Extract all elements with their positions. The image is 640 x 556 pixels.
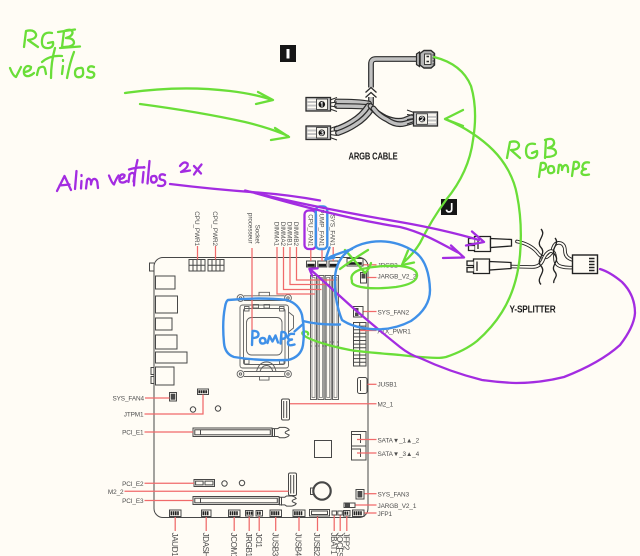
connector JUSB3 xyxy=(270,510,282,517)
svg-text:CPU_PWR1: CPU_PWR1 xyxy=(193,211,200,246)
green arrow to connector 1 xyxy=(125,88,273,104)
dimm slot 3 xyxy=(325,276,331,400)
leader SATA_1_2 xyxy=(357,439,377,441)
leader JUSB2 xyxy=(317,517,319,532)
connector ATX_PWR1 xyxy=(354,323,367,367)
leader JUSB1 xyxy=(368,383,377,385)
leader DIMMA2 xyxy=(284,247,322,290)
svg-text:PCI_E1: PCI_E1 xyxy=(122,430,144,437)
svg-text:Y-SPLITTER: Y-SPLITTER xyxy=(510,305,557,316)
svg-text:JUSB1: JUSB1 xyxy=(378,381,398,388)
blue arrow to PUMP_FAN1 xyxy=(326,248,353,260)
svg-text:JFP2: JFP2 xyxy=(342,533,351,551)
leader DIMMA1 xyxy=(277,247,315,294)
battery xyxy=(311,482,331,499)
svg-text:JDASH1: JDASH1 xyxy=(201,533,210,556)
svg-text:DIMMB1: DIMMB1 xyxy=(286,222,293,247)
purple box around CPU_FAN1 xyxy=(305,211,317,250)
dimm slot 1 xyxy=(311,276,317,400)
svg-text:JUSB4: JUSB4 xyxy=(294,533,303,556)
wire slack squiggle 2 xyxy=(553,238,556,283)
svg-text:Socket: Socket xyxy=(254,225,261,244)
socket processor frame xyxy=(240,305,294,369)
connector JTPM1 xyxy=(198,389,209,395)
socket bracket bottom xyxy=(237,362,291,380)
leader SYS_FAN4 xyxy=(145,397,170,399)
svg-text:PCI_E3: PCI_E3 xyxy=(122,498,144,505)
handwriting Alim ventilos xyxy=(57,160,165,191)
leader PUMP_FAN1 xyxy=(321,249,323,261)
connector M2_1 xyxy=(282,399,290,420)
connector F1 (top fan plug) xyxy=(469,237,512,252)
svg-text:JCI1: JCI1 xyxy=(254,533,263,549)
connector JDASH1 xyxy=(202,510,212,517)
leader PCI_E1 xyxy=(145,431,194,433)
svg-text:JAUD1: JAUD1 xyxy=(170,533,179,556)
svg-text:SYS_FAN3: SYS_FAN3 xyxy=(378,492,410,499)
wire junction to connector 1 (pair) xyxy=(337,102,369,104)
leader JRGB2 xyxy=(364,264,377,266)
connector 2 xyxy=(414,112,438,126)
connector F2 (bottom fan plug) xyxy=(467,259,511,274)
dimm slot 2 xyxy=(318,276,324,400)
connector JFP1 xyxy=(353,510,365,517)
leader JARGB_V2_2 xyxy=(367,277,377,279)
connector T (top) xyxy=(417,51,435,69)
leader JARGB_V2_1 xyxy=(356,504,377,506)
left edge tab xyxy=(150,263,155,271)
leader PCI_E2 xyxy=(145,482,195,484)
leader M2_2 xyxy=(125,490,289,492)
svg-text:JCOM1: JCOM1 xyxy=(229,533,238,556)
board outline xyxy=(154,258,368,518)
connector 1 boot xyxy=(330,98,337,112)
wire F1 to R (wavy) xyxy=(517,242,573,261)
m2 slot M2_2 xyxy=(289,473,297,496)
wire slack squiggle 1 xyxy=(539,229,542,285)
connector JUSB2 xyxy=(310,510,330,517)
svg-text:SATA▼_1▲_2: SATA▼_1▲_2 xyxy=(378,437,420,444)
svg-text:DIMMA2: DIMMA2 xyxy=(279,222,286,247)
wire junction to connector 2 (pair) xyxy=(371,106,413,121)
leader JFP1 xyxy=(365,512,377,514)
step marker 1 xyxy=(280,45,296,62)
leader DIMMB1 xyxy=(290,247,330,285)
wire top connector to junction xyxy=(371,59,417,104)
blue line from pompe to ellipse xyxy=(303,321,340,325)
leader JCOM1 xyxy=(233,517,235,531)
mounting hole C xyxy=(222,481,227,486)
svg-text:PCI_E2: PCI_E2 xyxy=(122,481,144,488)
green arrow at connector 2 with big sweep xyxy=(302,110,520,358)
svg-text:SYS_FAN1: SYS_FAN1 xyxy=(329,214,336,246)
io block 6 xyxy=(156,367,175,385)
leader JUSB3 xyxy=(275,517,277,531)
connector SATA 3-4 xyxy=(352,446,367,460)
svg-text:JARGB_V2_2: JARGB_V2_2 xyxy=(378,274,417,281)
leader M2_1 xyxy=(290,403,377,405)
connector JFP2 xyxy=(344,511,351,517)
pcie slot PCI_E3 xyxy=(193,496,296,506)
leader PCI_E3 xyxy=(145,500,194,502)
chipset xyxy=(315,441,332,458)
dimm slot 4 xyxy=(333,276,339,400)
io block 4 xyxy=(156,335,178,349)
connector CPU_PWR2 xyxy=(208,260,224,272)
connector PUMP_FAN1 xyxy=(318,261,327,267)
connector CPU_FAN1 xyxy=(307,261,316,267)
svg-text:M2_2: M2_2 xyxy=(108,489,124,496)
wire F2 to R (wavy) xyxy=(511,251,573,268)
purple arrow at CPU_FAN1 with long sweep to Y-splitter right xyxy=(309,268,635,383)
svg-text:SYS_FAN2: SYS_FAN2 xyxy=(378,309,410,316)
svg-text:SYS_FAN4: SYS_FAN4 xyxy=(112,396,144,403)
connector JRGB1 xyxy=(246,511,254,517)
leader DIMMB2 xyxy=(297,247,337,280)
connector JOCFS1 xyxy=(338,511,343,515)
svg-text:JTPM1: JTPM1 xyxy=(124,412,144,419)
connector SYS_FAN3 xyxy=(356,490,364,500)
svg-text:JUSB3: JUSB3 xyxy=(270,533,279,556)
connector 2 boot xyxy=(407,110,414,124)
green ellipse around JARGB_V2_2 xyxy=(351,266,417,288)
svg-text:SATA▼_3▲_4: SATA▼_3▲_4 xyxy=(378,451,420,458)
leader JUSB4 xyxy=(298,517,300,531)
handwriting RGB (top left) xyxy=(24,30,80,49)
svg-text:PUMP_FAN1: PUMP_FAN1 xyxy=(318,209,325,247)
leader CPU_FAN1 xyxy=(310,249,312,261)
io block 2 xyxy=(156,296,178,313)
leader SYS_FAN3 xyxy=(365,493,377,495)
green arrow to connector 3 xyxy=(140,104,289,140)
svg-text:JUSB2: JUSB2 xyxy=(312,533,321,556)
svg-text:M2_1: M2_1 xyxy=(378,402,394,409)
leader JAUD1 xyxy=(174,517,176,531)
leader JRGB1 xyxy=(248,517,250,532)
connector JARGB_V2_2 xyxy=(361,273,367,284)
mounting hole A xyxy=(190,407,195,412)
svg-text:processeur: processeur xyxy=(247,213,254,245)
green curve ARGB top to JARGB_V2_2 arrow xyxy=(402,57,475,265)
svg-text:DIMMB2: DIMMB2 xyxy=(292,222,299,247)
leader CPU_PWR1 xyxy=(197,246,199,260)
blue box around PUMP_FAN1 xyxy=(316,207,328,250)
pcie slot PCI_E2 xyxy=(194,480,215,487)
leader JOCFS1 xyxy=(339,516,341,532)
svg-text:JARGB_V2_1: JARGB_V2_1 xyxy=(378,503,417,510)
handwriting Pompe (blue) xyxy=(252,325,303,346)
leader SYS_FAN2 xyxy=(364,311,377,313)
leader ATX_PWR1 xyxy=(360,330,377,332)
io block 3 xyxy=(156,318,173,330)
connector SATA 1-2 xyxy=(352,432,367,447)
connector JARGB_V2_1 xyxy=(344,503,355,508)
leader SYS_FAN1 xyxy=(332,247,334,261)
handwriting RGB pompe xyxy=(507,139,589,177)
connector R (male header) xyxy=(573,255,598,274)
connector SYS_FAN4 xyxy=(170,393,177,402)
svg-text:JRGB1: JRGB1 xyxy=(244,533,253,556)
connector JUSB4 xyxy=(293,510,305,517)
wire break chevrons xyxy=(366,88,377,98)
svg-text:ARGB CABLE: ARGB CABLE xyxy=(349,152,398,163)
connector JUSB1 xyxy=(358,378,368,394)
mounting hole B xyxy=(215,406,220,411)
leader JFP2 xyxy=(346,516,348,531)
svg-text:JFP1: JFP1 xyxy=(378,511,393,518)
mounting hole D xyxy=(239,480,244,485)
pcie slot PCI_E1 xyxy=(193,427,289,437)
connector 3 xyxy=(306,126,331,140)
blue circle around socket (Pompe) xyxy=(223,299,304,361)
io block 1 xyxy=(156,276,176,289)
svg-text:CPU_PWR2: CPU_PWR2 xyxy=(211,211,218,246)
connector CPU_PWR1 xyxy=(189,260,205,272)
connector 1 xyxy=(306,98,331,112)
connector JBAT1 xyxy=(332,511,337,515)
connector SYS_FAN2 xyxy=(354,307,364,318)
green scribble X near JRGB2 xyxy=(340,250,371,273)
leader Socket processeur xyxy=(251,248,253,331)
purple line to Y-splitter arrow A xyxy=(245,191,484,246)
io block 5 xyxy=(156,352,188,363)
connector 3 boot xyxy=(330,126,337,140)
purple line to Y-splitter arrow B xyxy=(255,193,464,258)
handwriting ventilos xyxy=(10,48,94,78)
connector JRGB2 xyxy=(347,259,363,267)
connector JCOM1 xyxy=(229,510,241,517)
svg-text:DIMMA1: DIMMA1 xyxy=(273,222,280,247)
connector JAUD1 xyxy=(170,510,182,517)
step marker J xyxy=(441,199,457,215)
purple underline swoosh xyxy=(170,184,320,201)
svg-text:CPU_FAN1: CPU_FAN1 xyxy=(306,214,313,247)
connector JCI1 xyxy=(256,511,263,517)
leader CPU_PWR2 xyxy=(215,246,217,260)
leader SATA_3_4 xyxy=(357,452,377,454)
connector SYS_FAN1 xyxy=(329,261,338,267)
leader JCI1 xyxy=(258,517,260,532)
wire junction to connector 3 (pair) xyxy=(337,106,369,130)
leader JTPM1 xyxy=(145,395,204,415)
leader JBAT1 xyxy=(333,516,335,532)
socket bracket top xyxy=(237,292,291,301)
audio jack bump 2 xyxy=(151,377,154,384)
blue ellipse around right labels xyxy=(335,241,430,329)
leader JDASH1 xyxy=(205,517,207,531)
audio jack bump 1 xyxy=(151,368,154,375)
handwriting 2x xyxy=(180,162,202,174)
